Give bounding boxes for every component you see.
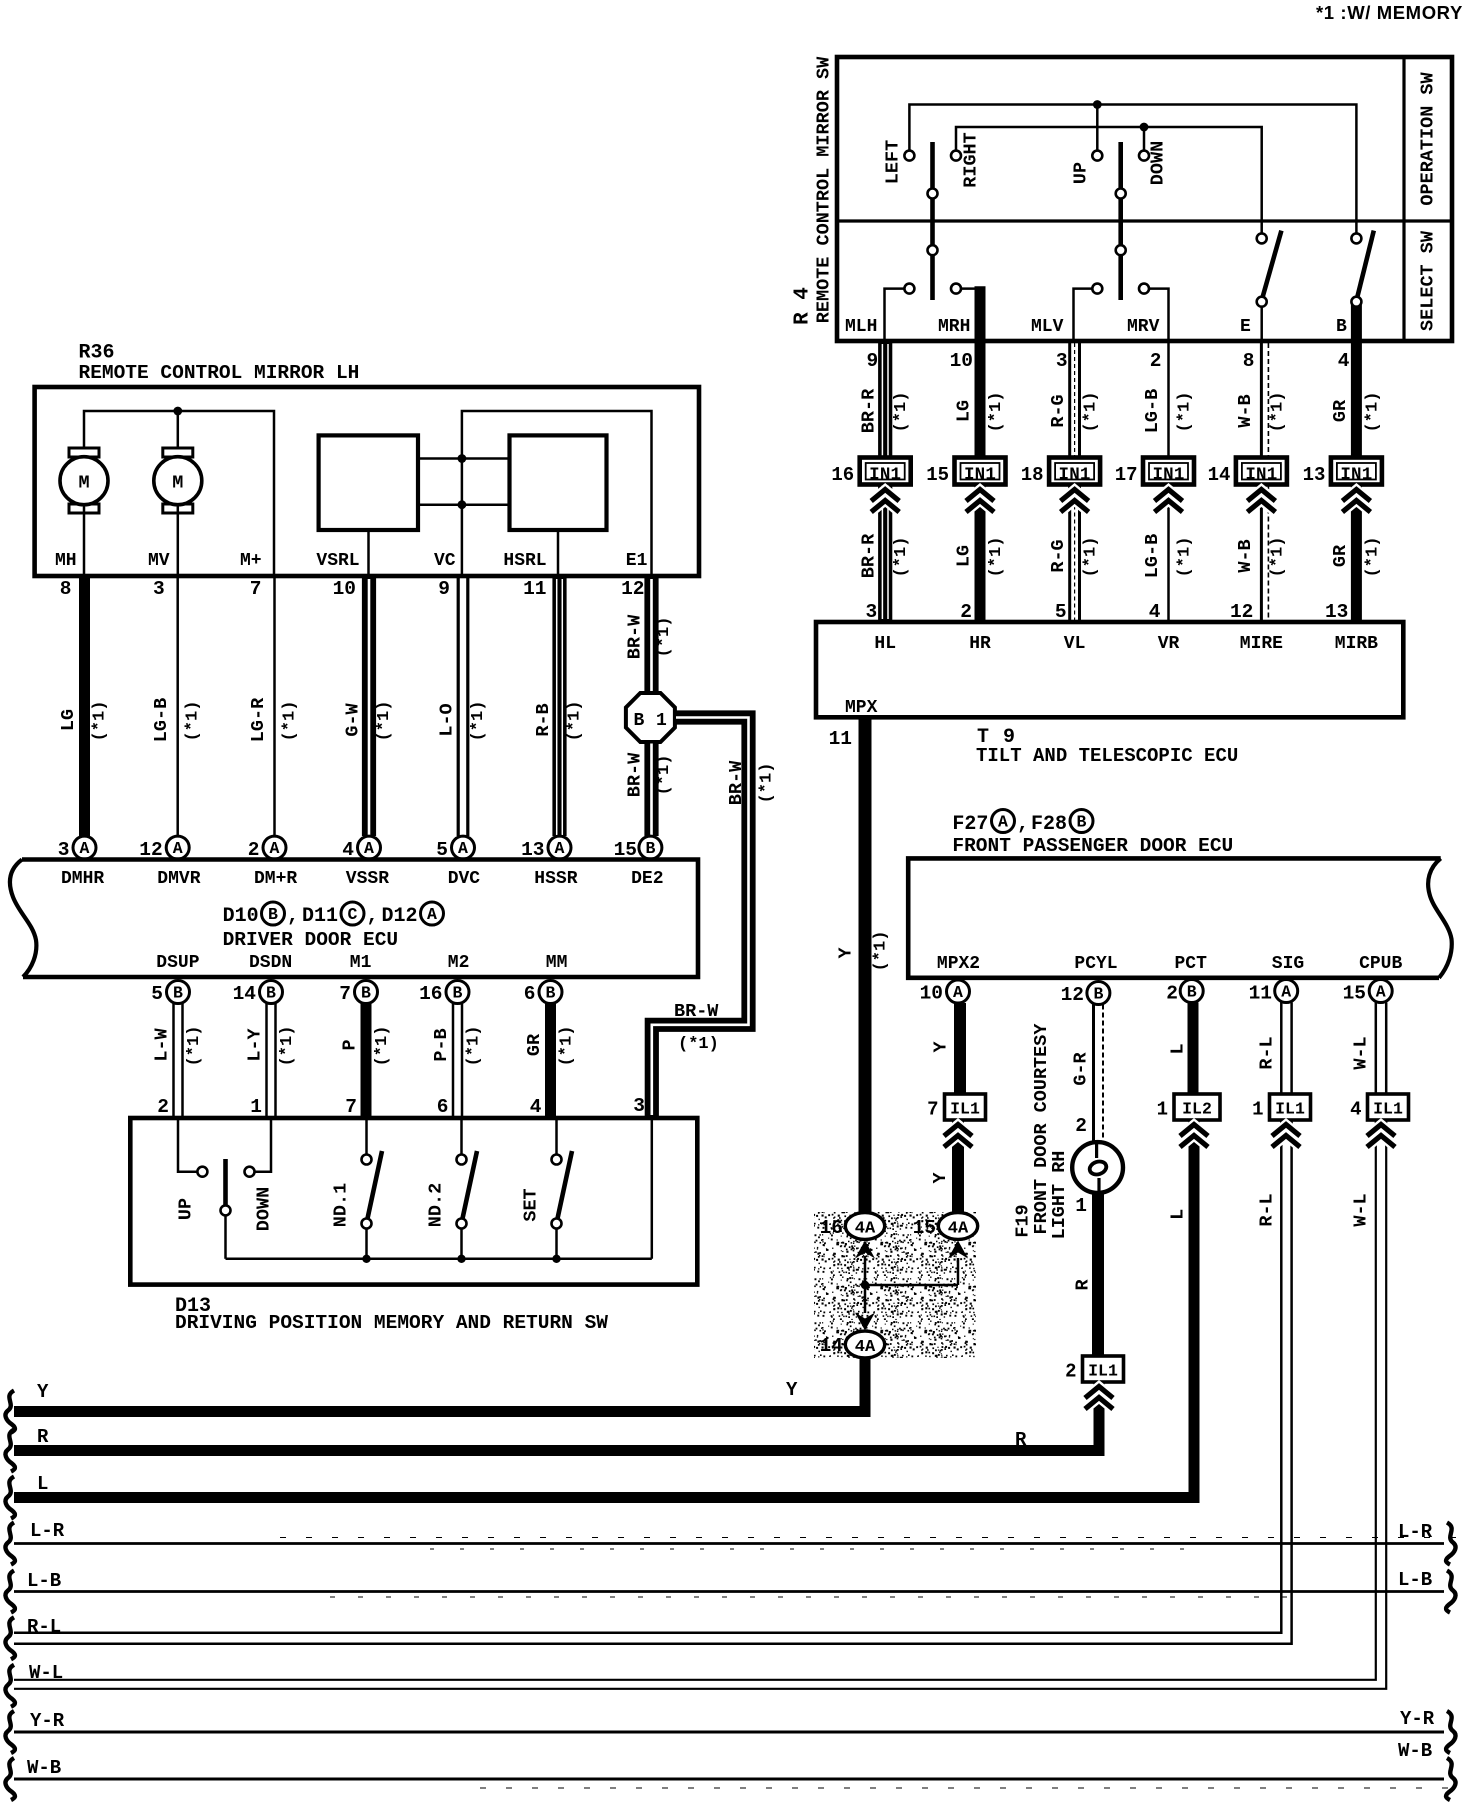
svg-text:VC: VC bbox=[434, 551, 456, 571]
svg-text:HL: HL bbox=[874, 634, 896, 654]
svg-text:ND.2: ND.2 bbox=[426, 1183, 447, 1227]
wire Y junction 4A-14 to Y bus bbox=[14, 1357, 865, 1412]
terminal B bbox=[1336, 317, 1347, 337]
svg-text:(*1): (*1) bbox=[655, 755, 674, 796]
svg-text:IL1: IL1 bbox=[1088, 1362, 1118, 1381]
ECU T9 tilt and telescopic box bbox=[816, 622, 1403, 717]
svg-text:B: B bbox=[1336, 317, 1347, 337]
contact RIGHT bbox=[951, 132, 982, 188]
svg-text:B: B bbox=[546, 984, 556, 1003]
svg-text:HSSR: HSSR bbox=[534, 869, 577, 889]
connector IN1 pin 17 bbox=[1115, 458, 1194, 487]
wire P-B D10 pin 16 to D13 pin 6 bbox=[419, 981, 483, 1119]
terminal M1 of D10 bbox=[350, 953, 372, 973]
switch lever MLV/MRV bbox=[1116, 142, 1126, 300]
svg-text:8: 8 bbox=[60, 578, 72, 600]
label FRONT PASSENGER DOOR ECU bbox=[952, 835, 1233, 857]
svg-text:12: 12 bbox=[1061, 984, 1084, 1006]
wire BR-R R4 pin 9 to connector IN1 bbox=[859, 343, 912, 458]
svg-text:G-W: G-W bbox=[343, 702, 364, 736]
svg-text:3: 3 bbox=[153, 578, 165, 600]
wire between sensor blocks upper bbox=[418, 454, 510, 463]
svg-text:UP: UP bbox=[176, 1198, 197, 1220]
switch D13 driving position memory box bbox=[130, 1118, 697, 1285]
svg-text:IN1: IN1 bbox=[869, 465, 901, 485]
svg-text:RIGHT: RIGHT bbox=[961, 132, 982, 188]
svg-text:LG-B: LG-B bbox=[1142, 534, 1163, 578]
svg-text:B: B bbox=[453, 984, 463, 1003]
svg-text:(*1): (*1) bbox=[1363, 392, 1382, 433]
svg-text:M+: M+ bbox=[240, 551, 262, 571]
svg-text:UP: UP bbox=[1071, 162, 1092, 184]
svg-text:B: B bbox=[1187, 983, 1197, 1002]
svg-text:(*1): (*1) bbox=[1363, 537, 1382, 578]
svg-text:Y: Y bbox=[786, 1379, 798, 1401]
svg-text:2: 2 bbox=[1065, 1361, 1076, 1383]
svg-text:Y: Y bbox=[37, 1381, 49, 1403]
wire R-G IN1 to T9 pin 5 bbox=[1048, 485, 1101, 624]
svg-text:DVC: DVC bbox=[448, 869, 481, 889]
svg-text:MM: MM bbox=[546, 953, 568, 973]
svg-text:W-B: W-B bbox=[1235, 394, 1256, 427]
wire LG-B IN1 to T9 pin 4 bbox=[1142, 485, 1195, 624]
lamp F19 front door courtesy light RH bbox=[1072, 1142, 1123, 1217]
svg-text:(*1): (*1) bbox=[278, 1026, 297, 1067]
terminal MH of R36 bbox=[55, 551, 77, 571]
connector IN1 pin 13 bbox=[1303, 458, 1382, 487]
svg-text:W-B: W-B bbox=[1398, 1740, 1432, 1762]
svg-text:12: 12 bbox=[621, 578, 644, 600]
terminal SIG of F27 bbox=[1272, 954, 1304, 974]
terminal MPX of T9 bbox=[845, 698, 878, 718]
wire L-Y D10 pin 14 to D13 pin 1 bbox=[233, 981, 297, 1119]
terminal PCYL of F27 bbox=[1074, 954, 1117, 974]
wire R IL1 to R bus bbox=[14, 1382, 1113, 1451]
svg-text:DE2: DE2 bbox=[631, 869, 663, 889]
svg-text:BR-R: BR-R bbox=[859, 533, 880, 578]
svg-text:W-L: W-L bbox=[1351, 1036, 1372, 1069]
svg-text:A: A bbox=[458, 839, 468, 858]
select contact MLH bbox=[885, 284, 915, 341]
svg-text:PCT: PCT bbox=[1174, 954, 1207, 974]
svg-text:1: 1 bbox=[250, 1096, 262, 1118]
bus W-B bbox=[5, 1740, 1455, 1800]
label REMOTE CONTROL MIRROR SW bbox=[814, 56, 835, 323]
svg-text:MV: MV bbox=[148, 551, 170, 571]
switch lever MLH/MRH bbox=[928, 142, 938, 300]
terminal DSUP of D10 bbox=[156, 953, 199, 973]
svg-text:R 4: R 4 bbox=[792, 287, 815, 325]
terminal HR of T9 bbox=[969, 634, 991, 654]
connector IN1 pin 16 bbox=[831, 458, 910, 487]
svg-text:W-B: W-B bbox=[27, 1757, 61, 1779]
svg-text:L-R: L-R bbox=[30, 1520, 65, 1542]
junction upper bus to UP bbox=[1093, 100, 1102, 151]
bus Y-R bbox=[5, 1708, 1455, 1753]
terminal VL of T9 bbox=[1064, 634, 1086, 654]
terminal MRV bbox=[1127, 317, 1160, 337]
svg-text:P-B: P-B bbox=[431, 1028, 452, 1061]
svg-text:(*1): (*1) bbox=[373, 1026, 392, 1067]
svg-text:R-L: R-L bbox=[1257, 1036, 1278, 1069]
svg-text:MPX2: MPX2 bbox=[937, 954, 980, 974]
svg-text:R-B: R-B bbox=[533, 703, 554, 736]
svg-text:DOWN: DOWN bbox=[254, 1187, 275, 1231]
svg-text:IN1: IN1 bbox=[1340, 465, 1372, 485]
label F27 F28 connectors bbox=[952, 810, 1093, 837]
connector IL1 pin 2 bbox=[1065, 1356, 1123, 1383]
terminal DSDN of D10 bbox=[249, 953, 292, 973]
svg-text:W-L: W-L bbox=[29, 1662, 63, 1684]
svg-text:(*1): (*1) bbox=[758, 763, 777, 804]
svg-text:*1 :W/ MEMORY: *1 :W/ MEMORY bbox=[1316, 2, 1463, 23]
svg-text:Y: Y bbox=[930, 1172, 951, 1184]
svg-text:L-O: L-O bbox=[437, 703, 458, 736]
wire L IL2 to L bus bbox=[14, 1120, 1208, 1498]
svg-text:R: R bbox=[1015, 1429, 1027, 1451]
svg-text:BR-W: BR-W bbox=[625, 752, 646, 797]
select contact MRH bbox=[951, 284, 980, 341]
svg-text:LG-R: LG-R bbox=[248, 697, 269, 742]
svg-text:HR: HR bbox=[969, 634, 991, 654]
switch ND.2 bbox=[426, 1118, 478, 1263]
terminal MPX2 of F27 bbox=[937, 954, 980, 974]
terminal HSSR of D10 bbox=[534, 869, 577, 889]
svg-text:DSUP: DSUP bbox=[156, 953, 199, 973]
wire G-R PCYL pin 12 to courtesy light bbox=[1061, 982, 1110, 1143]
svg-text:HSRL: HSRL bbox=[503, 551, 546, 571]
svg-text:B: B bbox=[645, 839, 655, 858]
motor M vertical bbox=[154, 448, 202, 576]
splice area shading bbox=[814, 1212, 976, 1358]
svg-text:(*1): (*1) bbox=[1176, 392, 1195, 433]
svg-text:FRONT PASSENGER DOOR ECU: FRONT PASSENGER DOOR ECU bbox=[952, 835, 1233, 857]
wire L-O R36 pin 9 to D10 pin 5 bbox=[436, 578, 488, 861]
svg-text:(*1): (*1) bbox=[1082, 392, 1101, 433]
wire R-G R4 pin 3 to connector IN1 bbox=[1048, 343, 1101, 458]
label R 4 bbox=[792, 287, 815, 325]
svg-text:(*1): (*1) bbox=[91, 701, 110, 742]
svg-text:B 1: B 1 bbox=[633, 711, 667, 731]
svg-text:Y: Y bbox=[836, 947, 857, 959]
svg-text:,: , bbox=[367, 905, 379, 928]
svg-text:IN1: IN1 bbox=[1152, 465, 1184, 485]
svg-text:REMOTE CONTROL MIRROR LH: REMOTE CONTROL MIRROR LH bbox=[79, 362, 360, 384]
svg-text:A: A bbox=[427, 905, 437, 924]
terminal MM of D10 bbox=[546, 953, 568, 973]
svg-text:1: 1 bbox=[1075, 1195, 1087, 1217]
connector IL1 pin 1 bbox=[1252, 1094, 1310, 1121]
svg-text:2: 2 bbox=[1075, 1115, 1087, 1137]
wire LG R4 pin 10 to connector IN1 bbox=[950, 343, 1006, 458]
contact LEFT bbox=[883, 140, 915, 184]
terminal VSSR of D10 bbox=[346, 869, 389, 889]
wire R courtesy light to connector IL1 pin 2 bbox=[1073, 1193, 1099, 1356]
svg-text:2: 2 bbox=[157, 1096, 169, 1118]
terminal MLV bbox=[1031, 317, 1064, 337]
terminal VR of T9 bbox=[1158, 634, 1180, 654]
wire operation bus lower bbox=[956, 127, 1262, 233]
terminal CPUB of F27 bbox=[1359, 954, 1402, 974]
label R36 bbox=[79, 342, 115, 365]
scan artifact dashes bbox=[280, 1538, 1460, 1789]
sensor block HSRL bbox=[510, 435, 607, 576]
svg-text:P: P bbox=[340, 1039, 361, 1050]
connector IL1 pin 4 bbox=[1350, 1094, 1408, 1121]
terminal M+ of R36 bbox=[240, 551, 262, 571]
svg-text:16: 16 bbox=[831, 464, 854, 486]
bus L-B bbox=[5, 1569, 1455, 1613]
wire L PCT pin 2 to connector IL2 pin 1 bbox=[1166, 980, 1203, 1095]
svg-text:DRIVER DOOR ECU: DRIVER DOOR ECU bbox=[223, 929, 399, 951]
splice dot bbox=[861, 1281, 869, 1289]
svg-text:B: B bbox=[361, 984, 371, 1003]
svg-text:MPX: MPX bbox=[845, 698, 878, 718]
wire GR D10 pin 6 to D13 pin 4 bbox=[524, 981, 577, 1119]
svg-text:L-B: L-B bbox=[1398, 1569, 1432, 1591]
svg-text:IN1: IN1 bbox=[964, 465, 996, 485]
terminal MRH bbox=[938, 317, 970, 337]
svg-text:GR: GR bbox=[1330, 399, 1351, 422]
svg-text:L-B: L-B bbox=[27, 1570, 61, 1592]
svg-text:L-R: L-R bbox=[1398, 1521, 1433, 1543]
terminal MIRB of T9 bbox=[1335, 634, 1378, 654]
wire BR-R IN1 to T9 pin 3 bbox=[859, 485, 912, 624]
svg-text:MLH: MLH bbox=[845, 317, 877, 337]
svg-text:L: L bbox=[1168, 1209, 1189, 1220]
svg-text:4: 4 bbox=[530, 1096, 542, 1118]
svg-text:MRV: MRV bbox=[1127, 317, 1160, 337]
terminal MIRE of T9 bbox=[1240, 634, 1283, 654]
wire R-L SIG pin 11 to connector IL1 pin 1 bbox=[1249, 980, 1298, 1095]
switch UP contact bbox=[176, 1118, 208, 1220]
svg-text:(*1): (*1) bbox=[1268, 537, 1287, 578]
svg-text:(*1): (*1) bbox=[892, 537, 911, 578]
svg-text:DSDN: DSDN bbox=[249, 953, 292, 973]
svg-text:E1: E1 bbox=[626, 551, 648, 571]
svg-text:R: R bbox=[1073, 1279, 1094, 1291]
svg-text:GR: GR bbox=[524, 1033, 545, 1056]
svg-text:(*1): (*1) bbox=[281, 701, 300, 742]
svg-text:(*1): (*1) bbox=[655, 617, 674, 658]
label DRIVING POSITION MEMORY AND RETURN SW bbox=[175, 1312, 608, 1334]
svg-text:A: A bbox=[1376, 983, 1386, 1002]
svg-text:Y: Y bbox=[931, 1041, 952, 1053]
svg-text:4: 4 bbox=[1350, 1099, 1361, 1121]
junction 4A pin 14 bbox=[820, 1285, 885, 1358]
svg-text:Y-R: Y-R bbox=[30, 1710, 65, 1732]
svg-text:BR-W: BR-W bbox=[726, 760, 747, 805]
svg-text:IN1: IN1 bbox=[1245, 465, 1277, 485]
svg-text:B: B bbox=[1093, 985, 1103, 1004]
wire LG IN1 to T9 pin 2 bbox=[954, 485, 1007, 624]
svg-text:(*1): (*1) bbox=[566, 701, 585, 742]
wire operation bus upper bbox=[909, 105, 1356, 234]
svg-text:LG-B: LG-B bbox=[1142, 389, 1163, 433]
svg-text:D11: D11 bbox=[302, 905, 338, 928]
svg-text:L: L bbox=[37, 1473, 48, 1495]
connector IN1 pin 18 bbox=[1021, 458, 1100, 487]
svg-text:LG: LG bbox=[954, 400, 975, 422]
svg-text:R: R bbox=[37, 1426, 49, 1448]
svg-text:IL1: IL1 bbox=[950, 1100, 980, 1119]
switch ND.1 bbox=[331, 1118, 383, 1263]
wire motor common to M+ bbox=[84, 411, 274, 576]
svg-text:(*1): (*1) bbox=[872, 931, 891, 972]
terminal DE2 of D10 bbox=[631, 869, 663, 889]
wire BR-W junction B1 to DE2 pin 15 bbox=[614, 743, 674, 862]
svg-text:MH: MH bbox=[55, 551, 77, 571]
wire L-W D10 pin 5 to D13 pin 2 bbox=[151, 981, 204, 1119]
svg-text:,: , bbox=[1017, 813, 1029, 836]
svg-text:A: A bbox=[953, 983, 963, 1002]
wire LG-R R36 pin 7 to D10 pin 2 bbox=[248, 578, 300, 861]
svg-text:B: B bbox=[1077, 813, 1087, 832]
terminal DMVR of D10 bbox=[157, 869, 200, 889]
svg-text:(*1): (*1) bbox=[185, 1026, 204, 1067]
svg-text:7: 7 bbox=[250, 578, 262, 600]
junction B1 octagon bbox=[626, 693, 675, 742]
svg-text:5: 5 bbox=[151, 983, 163, 1005]
svg-text:5: 5 bbox=[1055, 601, 1067, 623]
junction 4A pin 15 bbox=[865, 1213, 978, 1285]
svg-text:A: A bbox=[270, 839, 280, 858]
svg-text:W-B: W-B bbox=[1235, 539, 1256, 572]
svg-text:M2: M2 bbox=[448, 953, 470, 973]
terminal E1 of R36 bbox=[626, 551, 648, 571]
contact UP bbox=[1071, 151, 1103, 185]
terminal MLH bbox=[845, 317, 877, 337]
svg-text:B: B bbox=[173, 984, 183, 1003]
svg-text:9: 9 bbox=[438, 578, 450, 600]
svg-text:14: 14 bbox=[1208, 464, 1231, 486]
wire R-B R36 pin 11 to D10 pin 13 bbox=[521, 578, 584, 861]
bus continuation marks left bbox=[5, 1391, 14, 1707]
svg-text:IN1: IN1 bbox=[1059, 465, 1091, 485]
svg-text:GR: GR bbox=[1330, 544, 1351, 567]
svg-text:12: 12 bbox=[1230, 601, 1253, 623]
svg-text:3: 3 bbox=[865, 601, 877, 623]
junction lower bus to DOWN bbox=[1140, 123, 1149, 151]
ECU D10 driver door box bbox=[10, 860, 698, 978]
svg-text:4A: 4A bbox=[855, 1338, 876, 1357]
svg-text:13: 13 bbox=[1325, 601, 1348, 623]
terminal HL of T9 bbox=[874, 634, 896, 654]
svg-text:1: 1 bbox=[1252, 1099, 1263, 1121]
motor M horizontal bbox=[60, 448, 108, 576]
svg-text:15: 15 bbox=[1343, 983, 1366, 1005]
svg-text:A: A bbox=[1281, 983, 1291, 1002]
svg-text:DMVR: DMVR bbox=[157, 869, 200, 889]
wire P D10 pin 7 to D13 pin 7 bbox=[339, 981, 392, 1119]
switch UP/DOWN lever bbox=[221, 1159, 231, 1259]
svg-text:18: 18 bbox=[1021, 464, 1044, 486]
svg-text:M: M bbox=[172, 473, 183, 494]
svg-text:10: 10 bbox=[333, 578, 356, 600]
svg-text:4: 4 bbox=[1149, 601, 1161, 623]
svg-text:A: A bbox=[364, 839, 374, 858]
wire Y MPX2 pin 10 to connector IL1 pin 7 bbox=[920, 980, 970, 1094]
svg-text:9: 9 bbox=[866, 350, 878, 372]
svg-text:1: 1 bbox=[1157, 1099, 1168, 1121]
terminal PCT of F27 bbox=[1174, 954, 1207, 974]
svg-text:8: 8 bbox=[1243, 350, 1255, 372]
svg-text:4: 4 bbox=[1338, 350, 1350, 372]
svg-text:F28: F28 bbox=[1031, 813, 1067, 836]
svg-text:MIRE: MIRE bbox=[1240, 634, 1283, 654]
wire GR IN1 to T9 pin 13 bbox=[1325, 485, 1382, 624]
svg-text:4A: 4A bbox=[948, 1220, 969, 1239]
svg-text:DRIVING POSITION MEMORY AND RE: DRIVING POSITION MEMORY AND RETURN SW bbox=[175, 1312, 608, 1334]
terminal DMHR of D10 bbox=[61, 869, 104, 889]
svg-text:R-L: R-L bbox=[27, 1616, 61, 1638]
label REMOTE CONTROL MIRROR LH bbox=[79, 362, 360, 384]
svg-text:TILT AND TELESCOPIC ECU: TILT AND TELESCOPIC ECU bbox=[976, 745, 1238, 767]
svg-text:2: 2 bbox=[1166, 983, 1178, 1005]
switch R4 remote control mirror SW box bbox=[837, 57, 1452, 341]
svg-text:(*1): (*1) bbox=[184, 701, 203, 742]
switch SET bbox=[521, 1118, 573, 1263]
svg-text:(*1): (*1) bbox=[1268, 392, 1287, 433]
label TILT AND TELESCOPIC ECU bbox=[976, 745, 1238, 767]
label D10 D11 D12 connectors bbox=[223, 902, 444, 928]
svg-text:7: 7 bbox=[339, 983, 351, 1005]
svg-text:6: 6 bbox=[524, 983, 536, 1005]
svg-text:SET: SET bbox=[521, 1188, 542, 1221]
svg-text:LG: LG bbox=[954, 545, 975, 567]
wire G-W R36 pin 10 to D10 pin 4 bbox=[333, 578, 394, 861]
terminal MV of R36 bbox=[148, 551, 170, 571]
svg-text:(*1): (*1) bbox=[469, 701, 488, 742]
svg-text:M: M bbox=[78, 473, 89, 494]
svg-text:(*1): (*1) bbox=[465, 1026, 484, 1067]
svg-text:MIRB: MIRB bbox=[1335, 634, 1378, 654]
connector IN1 pin 14 bbox=[1208, 458, 1287, 487]
wire W-L CPUB pin 15 to connector IL1 pin 4 bbox=[1343, 980, 1393, 1095]
wire LG-B R4 pin 2 to connector IN1 bbox=[1142, 343, 1195, 458]
select switch E bbox=[1257, 231, 1282, 341]
svg-text:D12: D12 bbox=[382, 905, 418, 928]
select contact MRV bbox=[1139, 284, 1169, 341]
svg-text:Y-R: Y-R bbox=[1400, 1708, 1435, 1730]
ECU F27 front passenger door box bbox=[908, 858, 1452, 977]
svg-text:16: 16 bbox=[820, 1217, 843, 1239]
svg-text:15: 15 bbox=[913, 1217, 936, 1239]
svg-text:W-L: W-L bbox=[1351, 1193, 1372, 1226]
svg-text:G-R: G-R bbox=[1071, 1051, 1092, 1085]
wire VC to E1 internal bbox=[462, 411, 652, 576]
svg-text:SIG: SIG bbox=[1272, 954, 1304, 974]
svg-text:A: A bbox=[998, 813, 1008, 832]
svg-text:L: L bbox=[1168, 1043, 1189, 1054]
wire between sensor blocks lower bbox=[418, 500, 510, 509]
terminal DVC of D10 bbox=[448, 869, 481, 889]
component R36 remote control mirror LH box bbox=[35, 387, 699, 576]
label SELECT SW bbox=[1418, 230, 1439, 331]
svg-text:ND.1: ND.1 bbox=[331, 1183, 352, 1227]
svg-text:14: 14 bbox=[233, 983, 257, 1005]
wire R-L IL1 to R-L bus bbox=[14, 1120, 1300, 1644]
svg-text:A: A bbox=[555, 839, 565, 858]
svg-text:E: E bbox=[1240, 317, 1251, 337]
wire BR-W E1 pin 12 to junction B1 bbox=[621, 578, 674, 693]
svg-text:10: 10 bbox=[950, 350, 973, 372]
wire W-B R4 pin 8 to connector IN1 bbox=[1235, 343, 1288, 458]
terminal VSRL of R36 bbox=[316, 551, 359, 571]
svg-text:B: B bbox=[266, 984, 276, 1003]
junction motor MV bbox=[173, 407, 182, 457]
wire LG-B R36 pin 3 to D10 pin 12 bbox=[139, 578, 202, 861]
